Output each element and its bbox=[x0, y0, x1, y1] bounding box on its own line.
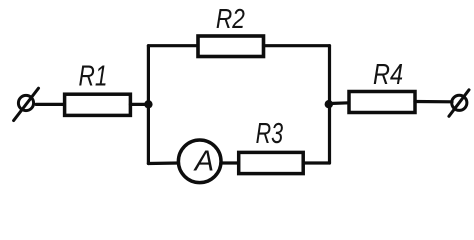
svg-text:R3: R3 bbox=[256, 118, 284, 150]
wire bbox=[328, 46, 331, 163]
svg-text:R4: R4 bbox=[373, 59, 403, 91]
wire bbox=[330, 101, 350, 105]
wire bbox=[36, 103, 64, 106]
wire bbox=[222, 161, 240, 164]
svg-text:A: A bbox=[193, 145, 214, 177]
wire bbox=[148, 44, 198, 47]
terminal left bbox=[14, 88, 39, 120]
node left junction bbox=[144, 100, 152, 108]
terminal right bbox=[449, 90, 469, 117]
resistor R4 bbox=[349, 92, 415, 113]
wire bbox=[264, 44, 330, 47]
wire bbox=[303, 161, 329, 164]
node right junction bbox=[325, 100, 333, 108]
resistor R1 bbox=[65, 94, 131, 115]
wire bbox=[148, 161, 179, 165]
svg-text:R2: R2 bbox=[216, 3, 245, 34]
ammeter A bbox=[178, 140, 221, 183]
resistor R2 bbox=[198, 36, 264, 57]
wire bbox=[147, 46, 150, 164]
svg-text:R1: R1 bbox=[79, 60, 108, 92]
wire bbox=[415, 100, 452, 104]
wire bbox=[130, 103, 148, 106]
resistor R3 bbox=[239, 152, 304, 173]
